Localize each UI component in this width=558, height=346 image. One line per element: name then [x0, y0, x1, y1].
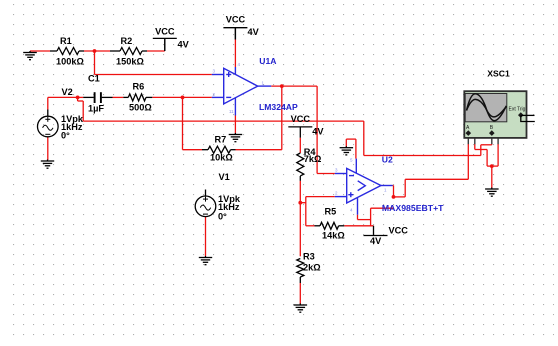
- svg-text:XSC1: XSC1: [487, 68, 510, 78]
- svg-text:11: 11: [229, 109, 234, 114]
- svg-text:7kΩ: 7kΩ: [304, 154, 322, 164]
- svg-text:C1: C1: [88, 74, 100, 84]
- svg-text:V1: V1: [219, 172, 230, 182]
- svg-text:2kΩ: 2kΩ: [303, 262, 321, 272]
- svg-text:VCC: VCC: [155, 27, 175, 37]
- svg-text:0°: 0°: [61, 131, 70, 141]
- svg-text:100kΩ: 100kΩ: [56, 57, 84, 67]
- svg-text:4V: 4V: [312, 126, 324, 136]
- svg-text:R2: R2: [121, 36, 133, 46]
- svg-text:150kΩ: 150kΩ: [116, 57, 144, 67]
- svg-text:R7: R7: [215, 134, 227, 144]
- svg-text:500Ω: 500Ω: [129, 102, 152, 112]
- svg-text:10kΩ: 10kΩ: [210, 152, 233, 162]
- svg-text:4V: 4V: [178, 40, 190, 50]
- svg-text:1µF: 1µF: [88, 104, 104, 114]
- svg-text:4V: 4V: [248, 27, 260, 37]
- svg-text:Ext Trig: Ext Trig: [509, 107, 526, 113]
- svg-text:R3: R3: [303, 251, 315, 261]
- svg-text:0°: 0°: [218, 211, 227, 221]
- svg-text:VCC: VCC: [226, 14, 246, 24]
- svg-text:R5: R5: [325, 207, 337, 217]
- svg-text:U2: U2: [382, 155, 393, 165]
- svg-text:V2: V2: [62, 87, 73, 97]
- svg-text:14kΩ: 14kΩ: [322, 231, 345, 241]
- svg-text:VCC: VCC: [389, 226, 409, 236]
- svg-text:LM324AP: LM324AP: [259, 102, 298, 112]
- svg-text:4V: 4V: [370, 236, 382, 246]
- svg-text:U1A: U1A: [259, 56, 276, 66]
- svg-text:R1: R1: [60, 36, 72, 46]
- svg-text:VCC: VCC: [291, 114, 311, 124]
- svg-text:R6: R6: [133, 81, 145, 91]
- svg-text:MAX985EBT+T: MAX985EBT+T: [382, 203, 444, 213]
